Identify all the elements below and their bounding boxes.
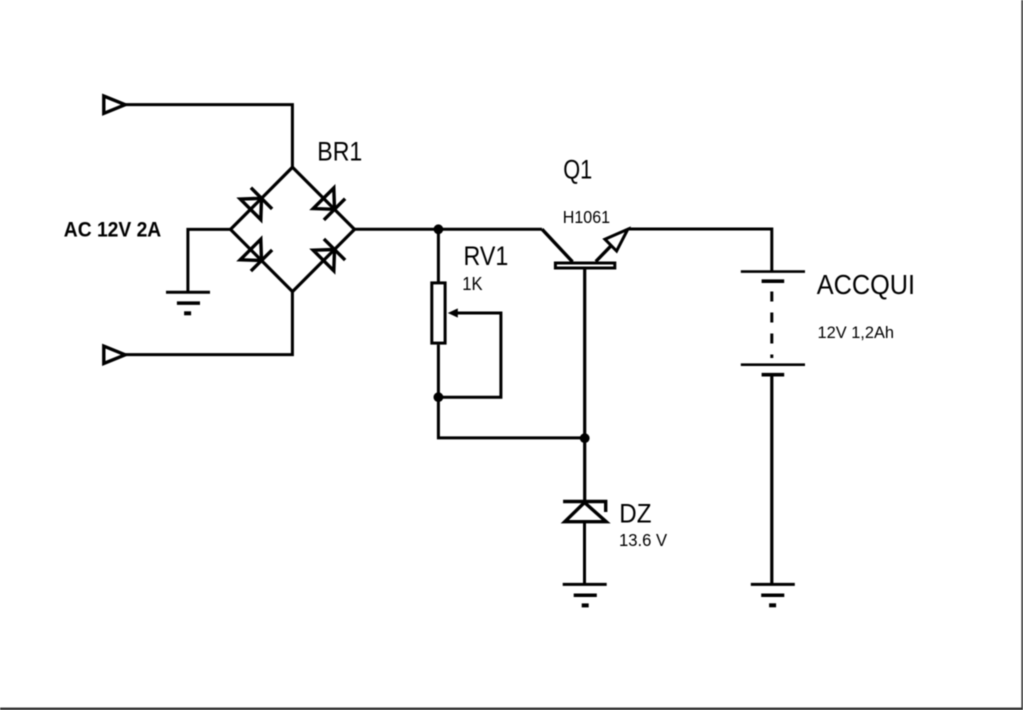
svg-text:H1061: H1061: [563, 207, 610, 227]
svg-text:13.6 V: 13.6 V: [619, 530, 667, 550]
bridge diode lower-right (anode bottom corner, cathode right corner): [313, 239, 345, 271]
battery BT1 cell 2 long plate: [741, 363, 805, 366]
input connector J1 (top AC terminal): [104, 96, 125, 113]
bridge diode upper-left (anode left corner, cathode top corner): [240, 188, 272, 220]
label 12V 1,2Ah: [818, 323, 895, 342]
label DZ: [619, 499, 651, 529]
svg-text:1K: 1K: [462, 273, 483, 294]
node A junction dot: [434, 224, 444, 234]
node B junction dot: [434, 392, 444, 402]
scan border right edge: [1021, 0, 1023, 710]
transistor Q1 emitter line with arrow: [596, 229, 628, 261]
scan border bottom edge: [0, 708, 1023, 710]
label AC source "AC 12V 2A": [64, 218, 161, 242]
svg-text:DZ: DZ: [619, 499, 651, 529]
rail emitter to battery: [628, 229, 772, 272]
label H1061: [563, 207, 610, 227]
label BR1: [317, 136, 362, 166]
label Q1: [563, 155, 592, 185]
ground (below battery BT1): [751, 584, 795, 605]
ground (below zener DZ): [563, 584, 607, 605]
wire RV1 bottom to node B: [437, 345, 440, 398]
wire battery BT1 to ground: [770, 377, 773, 585]
zener diode DZ triangle: [565, 503, 606, 522]
node C junction dot: [580, 433, 590, 443]
wire node A to RV1 top: [437, 229, 440, 282]
wire J2 to bridge bottom: [125, 292, 292, 355]
label 13.6 V: [619, 530, 667, 550]
bridge diode upper-right (anode top corner, cathode right corner): [313, 188, 345, 220]
zener diode DZ cathode bar with hook: [563, 502, 606, 513]
label 1K: [462, 273, 483, 294]
transistor Q1 collector line: [542, 229, 573, 262]
svg-text:Q1: Q1: [563, 155, 592, 185]
ground (AC input side): [166, 292, 210, 313]
label ACCQUI: [817, 269, 915, 300]
wire zener DZ to ground: [583, 522, 586, 585]
wire Q1 base to node C to zener DZ: [583, 270, 586, 502]
battery BT1 cell 2 short plate: [762, 373, 785, 377]
battery BT1 dashed middle link: [770, 292, 773, 359]
wire node B to node C: [438, 397, 584, 438]
wire bridge left corner to AC ground: [188, 229, 231, 292]
battery BT1 cell 1 long plate: [741, 270, 805, 273]
input connector J2 (bottom AC terminal): [104, 346, 125, 363]
wire bridge right corner to collector bend (positive rail): [355, 228, 543, 231]
potentiometer RV1 wiper arrow: [438, 308, 501, 397]
svg-text:AC 12V 2A: AC 12V 2A: [64, 218, 161, 242]
bridge rectifier BR1 diamond outline: [231, 167, 355, 291]
svg-text:ACCQUI: ACCQUI: [817, 269, 915, 300]
svg-text:12V 1,2Ah: 12V 1,2Ah: [818, 323, 895, 342]
battery BT1 cell 1 short plate: [762, 279, 785, 283]
transistor Q1 base bar: [555, 263, 614, 268]
potentiometer RV1 body: [432, 283, 445, 343]
svg-text:BR1: BR1: [317, 136, 362, 166]
wire J1 to bridge top: [125, 105, 292, 168]
label RV1: [464, 241, 509, 271]
bridge diode lower-left (anode left corner, cathode bottom corner): [240, 239, 272, 271]
svg-text:RV1: RV1: [464, 241, 509, 271]
